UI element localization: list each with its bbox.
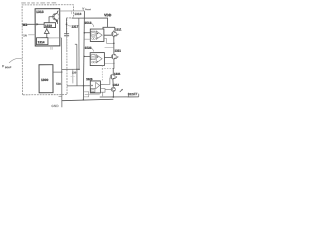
- block box 1319: [44, 23, 55, 28]
- divider rail wire: [61, 38, 63, 107]
- block box 1314: [37, 38, 48, 45]
- feedback wire lower1: [105, 46, 114, 48]
- leader VReset: [83, 10, 86, 11]
- transistor 1321 source arrow: [116, 57, 118, 59]
- current source marks: [92, 38, 94, 40]
- RESET tick left: [127, 93, 129, 97]
- gate wire 2: [104, 56, 111, 58]
- svg-text:1331: 1331: [114, 72, 121, 76]
- junction dots cluster: [76, 69, 78, 71]
- minus input tick block1: [84, 38, 90, 40]
- svg-text:-: -: [97, 59, 98, 63]
- RESET wire: [100, 96, 139, 98]
- GND rail wire: [62, 99, 114, 100]
- svg-text:RESET: RESET: [128, 92, 138, 96]
- transistor Q1: [49, 11, 59, 24]
- svg-text:1300: 1300: [41, 78, 49, 82]
- sub box: [91, 88, 95, 92]
- wire 1300 to rail: [53, 71, 62, 73]
- wire stubs below 1313: [51, 46, 52, 50]
- svg-text:Reset: Reset: [85, 8, 91, 11]
- svg-text:1321: 1321: [115, 49, 122, 53]
- svg-text:VDD: VDD: [104, 13, 112, 17]
- gate wire 4: [105, 89, 111, 91]
- junction dot 1317: [66, 23, 68, 25]
- feedback wire lower2: [105, 62, 114, 64]
- sub box: [91, 55, 95, 60]
- sub box: [91, 31, 95, 36]
- comparator box 1525: [90, 81, 100, 93]
- capacitor 1317 stem top: [65, 18, 67, 33]
- wire stub 1318: [70, 11, 72, 14]
- faint dashes y76.4: [71, 75, 77, 77]
- svg-text:1312: 1312: [112, 83, 119, 87]
- wire 1319 to triangle: [46, 28, 48, 29]
- svg-text:130: 130: [72, 71, 77, 75]
- wire M1 input: [27, 23, 44, 25]
- transistor 1311 source arrow: [116, 34, 118, 36]
- comparator box 1513: [90, 29, 104, 41]
- svg-text:1523: 1523: [85, 46, 92, 50]
- comparator symbol: [96, 55, 102, 63]
- wire down x76.9: [75, 44, 77, 86]
- svg-text:1317: 1317: [71, 25, 78, 29]
- wire tick gnd: [59, 95, 62, 97]
- block box 1300: [39, 65, 53, 93]
- svg-text:+: +: [91, 84, 93, 87]
- transistor 1331 source arrow: [115, 77, 117, 79]
- wire rail to plus input: [84, 55, 90, 57]
- wire 1314 to divider rail: [48, 37, 62, 39]
- leader 1513: [91, 23, 94, 27]
- svg-text:M1: M1: [23, 23, 28, 27]
- svg-text:1318: 1318: [74, 12, 81, 16]
- bias box bottom: [84, 92, 89, 97]
- wire arrowhead M1: [36, 23, 39, 25]
- transistor 1311: [112, 30, 117, 37]
- svg-text:1314: 1314: [38, 40, 45, 44]
- dashed enclosure box 1310: [22, 5, 74, 95]
- header smudge text row: [21, 2, 56, 3]
- transistor 1312 source arrow: [120, 89, 123, 92]
- VDD branch wire: [103, 27, 115, 30]
- svg-text:1313: 1313: [36, 10, 44, 14]
- gate wire 1: [104, 34, 112, 36]
- block box 1313: [35, 9, 60, 46]
- leader 1317: [67, 25, 71, 26]
- current source marks: [92, 61, 94, 63]
- wire minus input: [67, 85, 90, 87]
- RESET tick right: [138, 94, 140, 97]
- svg-text:1525: 1525: [86, 77, 93, 81]
- wire triangle to 1314: [46, 33, 48, 37]
- wire collector to Vreset rail: [57, 10, 84, 12]
- junction 1300 rail: [61, 71, 62, 72]
- svg-text:1A: 1A: [23, 33, 27, 37]
- junction chain tap1: [113, 42, 115, 44]
- feedback wire block1: [104, 38, 114, 43]
- svg-text:1319: 1319: [45, 24, 52, 28]
- svg-text:1513: 1513: [85, 21, 92, 25]
- chain wire 1-2: [113, 36, 115, 54]
- VDD bus wire: [72, 18, 108, 27]
- wire rail to plus input: [84, 32, 90, 34]
- wire 1319 to base: [48, 17, 50, 23]
- transistor 1331: [110, 74, 115, 79]
- transistor 1312: [111, 87, 115, 91]
- small box output: [101, 89, 106, 93]
- dashed cascade wire block2: [102, 65, 113, 68]
- wire x79 vertical: [78, 18, 80, 69]
- junction rail gnd: [83, 99, 85, 101]
- svg-text:-: -: [97, 36, 98, 40]
- buffer triangle: [44, 29, 49, 34]
- leader 1523: [91, 48, 94, 51]
- svg-text:530: 530: [56, 82, 61, 86]
- VReset rail wire: [83, 11, 85, 100]
- wire down x72.8: [72, 69, 74, 83]
- chain wire 2-3: [112, 59, 115, 75]
- comparator box 1523: [90, 53, 104, 66]
- wire box to reset: [102, 92, 104, 96]
- svg-text:1311: 1311: [115, 27, 122, 31]
- svg-text:GND: GND: [51, 104, 59, 108]
- extra wire below box3: [85, 93, 100, 95]
- chain wire to reset: [112, 91, 114, 96]
- capacitor 1317 plates: [64, 34, 69, 36]
- capacitor 1317 stem bottom: [66, 36, 68, 51]
- wire 1A input: [28, 34, 35, 36]
- chain wire 3-4: [112, 79, 114, 87]
- comparator symbol: [96, 31, 102, 39]
- svg-text:BGAP: BGAP: [5, 66, 12, 69]
- gate wire 3: [100, 78, 110, 85]
- leader VBGAP: [9, 58, 22, 62]
- comparator symbol: [96, 82, 100, 88]
- transistor 1321: [111, 54, 116, 59]
- feedback wire cluster: [62, 68, 79, 70]
